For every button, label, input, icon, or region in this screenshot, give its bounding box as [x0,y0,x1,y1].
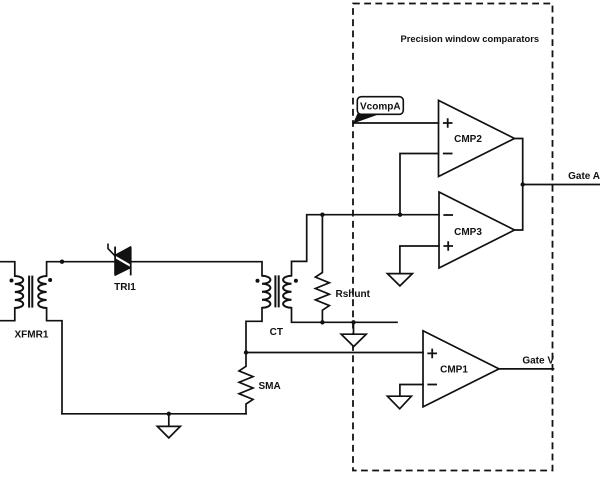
svg-text:VcompA: VcompA [360,101,401,112]
svg-text:Precision window comparators: Precision window comparators [401,33,540,44]
svg-text:SMA: SMA [259,381,281,392]
svg-text:CMP2: CMP2 [454,134,482,145]
svg-text:TRI1: TRI1 [114,282,136,293]
svg-text:XFMR1: XFMR1 [15,330,49,341]
svg-text:CMP1: CMP1 [440,365,468,376]
svg-text:Gate A: Gate A [568,171,600,182]
svg-text:Rshunt: Rshunt [336,289,371,300]
svg-text:Gate V: Gate V [522,356,554,367]
svg-text:CT: CT [270,327,283,338]
svg-text:CMP3: CMP3 [454,227,482,238]
